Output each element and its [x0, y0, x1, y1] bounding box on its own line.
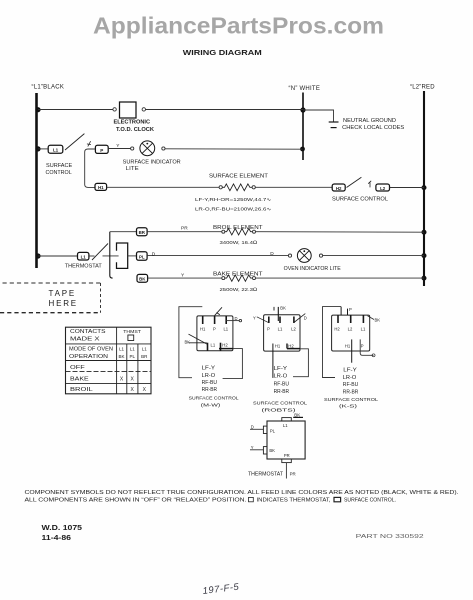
terminal circle oven lite right: [319, 254, 322, 257]
terminal BR box: [137, 228, 148, 236]
label D wire right: [270, 251, 274, 257]
svg-text:PL: PL: [270, 429, 276, 434]
M-W bottom terminal H2: [221, 342, 229, 350]
K-S BK pointer: [368, 316, 381, 323]
terminal circle clock right: [142, 108, 145, 111]
svg-text:OFF: OFF: [70, 365, 85, 371]
label D wire left: [152, 252, 156, 258]
wire BR to broil element: [147, 231, 222, 233]
thermostat contact block: [117, 243, 128, 268]
svg-text:SURFACE CONTROL: SURFACE CONTROL: [253, 400, 307, 406]
junction dot N/indicator: [300, 147, 305, 152]
svg-text:MODE OF OVEN: MODE OF OVEN: [69, 346, 113, 352]
svg-text:NEUTRAL GROUND: NEUTRAL GROUND: [343, 118, 396, 124]
junction dot L2/oven lite: [422, 253, 427, 258]
wire PL to oven lite: [147, 255, 288, 257]
wire bake to red bus: [256, 277, 425, 279]
surface indicator lite lamp: [140, 141, 155, 156]
svg-text:“N” WHITE: “N” WHITE: [289, 86, 321, 92]
K-S P top leads: [341, 307, 352, 316]
svg-text:SURFACE CONTROL: SURFACE CONTROL: [332, 196, 388, 202]
table header contacts made: [70, 329, 141, 343]
wire switch pole down to H1: [85, 149, 96, 187]
ground symbol: [329, 122, 339, 128]
svg-text:P: P: [349, 307, 352, 312]
M-W wire L1 to D: [226, 316, 241, 322]
label PR wire: [181, 225, 188, 231]
svg-text:SURFACE: SURFACE: [46, 163, 73, 169]
node L1 BLACK label: [32, 85, 65, 91]
ROBTS bottom terminal H1: [273, 344, 281, 378]
label broil rating: [220, 240, 258, 246]
svg-text:PR: PR: [290, 472, 296, 477]
svg-text:(ROBTS): (ROBTS): [262, 408, 297, 414]
svg-text:BK: BK: [294, 412, 300, 417]
svg-text:WIRING DIAGRAM: WIRING DIAGRAM: [183, 48, 262, 57]
arrow tick on pole: [87, 141, 91, 146]
svg-text:BR: BR: [139, 230, 146, 235]
svg-text:RR-BR: RR-BR: [343, 389, 359, 395]
bus L2 red: [423, 91, 425, 286]
svg-text:L1: L1: [142, 346, 148, 351]
junction dot L1/thermostat: [35, 253, 40, 258]
svg-text:BAKE: BAKE: [70, 376, 90, 382]
K-S wire left loop: [323, 307, 342, 378]
label part no: [356, 534, 424, 540]
svg-text:H1: H1: [345, 344, 351, 349]
svg-text:BROIL: BROIL: [70, 387, 93, 393]
oven indicator lite lamp: [297, 249, 311, 263]
thermostat L1 box: [78, 252, 89, 260]
label 11-4-86: [42, 535, 72, 542]
wire L1 bus to clock: [38, 109, 113, 111]
svg-text:W.D. 1075: W.D. 1075: [42, 525, 83, 532]
svg-text:H2: H2: [334, 326, 340, 331]
svg-text:LR-O: LR-O: [343, 375, 357, 381]
svg-text:D: D: [304, 316, 307, 321]
label surface indicator lite: [123, 159, 181, 172]
terminal H2 box: [332, 184, 345, 191]
K-S top terminal L2: [348, 315, 353, 331]
wire N bus to ground: [303, 110, 334, 122]
svg-text:L1: L1: [361, 326, 366, 331]
M-W wire right loop: [223, 349, 243, 379]
svg-text:H1: H1: [98, 185, 104, 190]
M-W BK pointer: [185, 334, 208, 345]
thermostat detail box: [267, 421, 305, 459]
svg-text:LITE: LITE: [126, 166, 139, 172]
svg-text:OVEN INDICATOR LITE: OVEN INDICATOR LITE: [284, 266, 342, 272]
svg-text:D: D: [270, 251, 274, 257]
wire oven lite to red bus: [323, 255, 424, 257]
svg-text:(K-S): (K-S): [339, 404, 358, 410]
svg-text:LR-O,RF-BU=2100W,26.6∿: LR-O,RF-BU=2100W,26.6∿: [195, 206, 272, 211]
wire BK to bake element: [148, 277, 222, 279]
K-S top terminal H2: [334, 315, 340, 331]
thermostat detail top tab BK: [282, 412, 303, 428]
svg-text:BK: BK: [118, 354, 124, 359]
svg-text:SURFACE CONTROL.: SURFACE CONTROL.: [344, 498, 396, 504]
label broil element: [213, 225, 263, 231]
label surface control (right): [332, 196, 388, 202]
switch blade surface control right: [347, 177, 362, 187]
svg-text:BK: BK: [280, 306, 286, 311]
node N WHITE label: [289, 86, 321, 92]
svg-text:SURFACE CONTROL: SURFACE CONTROL: [189, 395, 239, 401]
label bake element: [213, 272, 264, 278]
svg-text:L1: L1: [278, 326, 283, 331]
terminal H1 box: [95, 183, 107, 190]
svg-text:ELECTRONIC: ELECTRONIC: [114, 120, 151, 126]
svg-text:BK: BK: [375, 317, 381, 322]
bus L1 black: [35, 93, 38, 268]
svg-text:L2: L2: [291, 326, 296, 331]
svg-text:L2: L2: [380, 186, 386, 191]
svg-text:P: P: [213, 326, 216, 331]
K-S caption: [324, 397, 378, 410]
svg-text:L2: L2: [348, 326, 353, 331]
svg-text:D: D: [235, 316, 238, 321]
svg-text:3400W, 16.4Ω: 3400W, 16.4Ω: [220, 240, 258, 246]
label surface control (left): [46, 163, 73, 176]
terminal BK box: [137, 274, 148, 282]
terminal circle indicator left: [131, 147, 134, 150]
svg-text:SURFACE INDICATOR: SURFACE INDICATOR: [123, 159, 181, 165]
svg-text:PART NO 330592: PART NO 330592: [356, 534, 424, 540]
svg-text:H2: H2: [336, 186, 342, 191]
svg-text:H1: H1: [200, 326, 206, 331]
label Y wire: [116, 143, 120, 149]
table row bake: [70, 376, 135, 382]
svg-text:THERMOSTAT: THERMOSTAT: [248, 472, 284, 478]
junction dot L2/surface element: [422, 185, 427, 190]
label W.D. 1075: [42, 525, 83, 532]
terminal PL box: [137, 252, 148, 261]
K-S bottom lead P: [360, 339, 375, 356]
wire indicator to N bus: [165, 148, 303, 150]
svg-text:PL: PL: [129, 354, 135, 359]
M-W legend: [202, 366, 218, 394]
svg-text:D: D: [152, 252, 156, 258]
svg-text:BK: BK: [269, 448, 275, 453]
svg-text:LR-O: LR-O: [202, 373, 216, 379]
M-W bottom terminal L1: [208, 342, 216, 350]
M-W wire left loop: [179, 307, 202, 378]
ROBTS wire right loop: [293, 349, 308, 377]
M-W top terminal L1: [223, 316, 228, 331]
thermostat actuator bar: [110, 232, 113, 278]
svg-text:2500W, 22.3Ω: 2500W, 22.3Ω: [220, 287, 258, 293]
junction dot L1/clock: [35, 107, 40, 112]
note line 2: [25, 497, 397, 503]
ROBTS bottom terminal H2: [287, 344, 294, 349]
handwritten 197-F-5: [202, 582, 240, 597]
svg-text:CONTROL: CONTROL: [46, 170, 72, 176]
broil element resistor: [222, 229, 256, 235]
svg-text:PR: PR: [181, 225, 188, 231]
svg-text:CHECK LOCAL CODES: CHECK LOCAL CODES: [342, 125, 404, 131]
ROBTS caption: [253, 400, 307, 413]
svg-text:MADE X: MADE X: [70, 336, 101, 342]
wire broil to red bus: [256, 231, 425, 234]
svg-text:H1: H1: [275, 344, 281, 349]
label thermostat: [65, 264, 103, 270]
ROBTS Y pointer: [253, 316, 269, 323]
svg-text:Y: Y: [253, 316, 256, 321]
svg-text:BK: BK: [185, 340, 191, 345]
ROBTS right blade: [294, 314, 307, 323]
svg-text:LF-Y: LF-Y: [274, 366, 288, 372]
bus N white: [302, 93, 304, 161]
label surface element: [209, 174, 269, 180]
svg-text:ALL COMPONENTS ARE SHOWN IN “O: ALL COMPONENTS ARE SHOWN IN “OFF” OR “RE…: [25, 498, 247, 504]
svg-text:TAPE: TAPE: [49, 289, 77, 298]
wire surface element to H2: [255, 186, 332, 188]
svg-text:COMPONENT SYMBOLS DO NOT REFLE: COMPONENT SYMBOLS DO NOT REFLECT TRUE CO…: [25, 490, 459, 496]
label neutral ground: [342, 118, 404, 131]
ROBTS top terminal P: [267, 317, 270, 332]
M-W switch blade top: [215, 307, 222, 315]
M-W caption: [189, 395, 239, 408]
svg-text:SURFACE ELEMENT: SURFACE ELEMENT: [209, 174, 269, 180]
table row off: [70, 365, 85, 371]
ROBTS top terminal L1: [278, 317, 283, 332]
svg-text:RF-BU: RF-BU: [202, 380, 218, 386]
thermostat switch blade: [89, 244, 119, 261]
title WIRING DIAGRAM: [183, 48, 262, 57]
M-W top terminal P: [213, 316, 216, 331]
svg-text:INDICATES THERMOSTAT,: INDICATES THERMOSTAT,: [257, 498, 331, 504]
M-W top terminal H1: [200, 316, 206, 331]
contacts table: [66, 327, 152, 394]
thermostat detail left tab PL: [250, 424, 276, 433]
arrow tick on L2 pole: [368, 181, 371, 188]
wire contact block to PL: [128, 255, 137, 257]
svg-text:LF-Y: LF-Y: [343, 368, 357, 374]
surface control ROBTS detail box: [264, 315, 300, 351]
svg-text:“L1”BLACK: “L1”BLACK: [32, 85, 65, 91]
wire H1 to surface element: [107, 186, 219, 188]
svg-text:P: P: [100, 148, 103, 153]
svg-text:BROIL ELEMENT: BROIL ELEMENT: [213, 225, 263, 231]
svg-text:LR-O: LR-O: [274, 374, 288, 380]
surface control switch L1 box: [48, 145, 63, 153]
svg-text:PL: PL: [139, 255, 145, 260]
watermark AppliancePartsPros.com: [93, 13, 384, 39]
note line 1: [25, 490, 459, 496]
label surface element ratings: [195, 197, 272, 212]
svg-text:LF-Y: LF-Y: [202, 366, 216, 372]
tape here box: [0, 283, 101, 313]
svg-text:P: P: [267, 326, 270, 331]
thermostat detail left tab BK: [250, 445, 275, 454]
junction dot L2/bake: [422, 276, 427, 281]
svg-text:SURFACE CONTROL: SURFACE CONTROL: [324, 397, 378, 403]
svg-text:HERE: HERE: [49, 299, 78, 308]
terminal circle clock left: [113, 108, 116, 111]
K-S top terminal L1: [361, 315, 366, 331]
thermostat detail bottom tab PR: [282, 453, 296, 479]
K-S bottom lead H1: [345, 339, 352, 362]
surface control M-W detail box: [197, 316, 233, 351]
K-S legend: [343, 368, 359, 396]
M-W H2 thick lead: [219, 348, 233, 350]
svg-text:LF-Y,RH-OR=1250W,44.7∿: LF-Y,RH-OR=1250W,44.7∿: [195, 197, 272, 202]
svg-text:RR-BR: RR-BR: [202, 387, 218, 393]
svg-text:L1: L1: [130, 346, 136, 351]
svg-text:T.O.D. CLOCK: T.O.D. CLOCK: [116, 127, 154, 133]
surface element resistor: [219, 184, 255, 191]
node L2 RED label: [410, 85, 435, 91]
switch blade surface control: [65, 134, 84, 150]
svg-text:RF-BU: RF-BU: [274, 381, 290, 387]
table row mode of oven operation: [69, 346, 148, 360]
svg-text:L1: L1: [53, 148, 59, 153]
svg-text:THMST: THMST: [123, 329, 141, 334]
svg-text:BK: BK: [139, 277, 146, 282]
junction dot L1/surface control: [35, 146, 40, 151]
svg-text:PR: PR: [284, 453, 290, 458]
svg-text:L1: L1: [223, 326, 228, 331]
label bake rating: [220, 287, 258, 293]
svg-text:RR-BR: RR-BR: [274, 389, 290, 395]
terminal L2 box: [376, 184, 390, 191]
electronic T.O.D. clock: [114, 102, 155, 133]
svg-text:L1: L1: [211, 342, 216, 347]
svg-text:OPERATION: OPERATION: [69, 354, 109, 360]
ROBTS legend: [274, 366, 290, 395]
wire bar to BR: [110, 231, 137, 233]
svg-text:BAKE ELEMENT: BAKE ELEMENT: [213, 272, 264, 278]
svg-text:RF-BU: RF-BU: [343, 382, 359, 388]
svg-text:P: P: [361, 344, 364, 349]
wire L1 bus to surface control switch: [38, 148, 48, 150]
label oven indicator lite: [284, 266, 342, 272]
svg-text:(M-W): (M-W): [201, 403, 221, 409]
ROBTS H2 thick lead: [287, 348, 300, 350]
bake element resistor: [222, 275, 256, 281]
wire L2 box to red bus: [390, 187, 425, 189]
surface control K-S detail box: [332, 315, 370, 351]
wire L1 bus to thermostat: [38, 255, 78, 257]
svg-text:L1: L1: [119, 346, 125, 351]
wire P to indicator: [108, 148, 130, 150]
wire clock to N bus: [146, 109, 304, 111]
svg-text:D: D: [251, 424, 254, 429]
terminal circle oven lite left: [288, 254, 291, 257]
ROBTS BK top lead: [274, 306, 286, 322]
terminal circle indicator right: [162, 147, 165, 150]
svg-text:BR: BR: [141, 354, 148, 359]
svg-text:CONTACTS: CONTACTS: [70, 329, 106, 335]
svg-text:Y: Y: [251, 445, 254, 450]
svg-text:“L2”RED: “L2”RED: [410, 85, 435, 91]
junction dot N/clock: [300, 107, 305, 112]
thermostat detail caption: [248, 472, 284, 478]
svg-text:AppliancePartsPros.com: AppliancePartsPros.com: [93, 13, 384, 39]
label Y bake wire: [181, 273, 185, 279]
svg-text:L1: L1: [283, 423, 288, 428]
svg-text:L1: L1: [81, 255, 87, 260]
table row broil: [70, 387, 147, 393]
svg-text:THERMOSTAT: THERMOSTAT: [65, 264, 103, 270]
svg-text:11-4-86: 11-4-86: [42, 535, 72, 542]
ROBTS top terminal L2: [291, 317, 296, 332]
svg-text:H2: H2: [222, 342, 228, 347]
junction dot L2/broil: [422, 230, 427, 235]
pushbutton P box: [95, 145, 108, 153]
